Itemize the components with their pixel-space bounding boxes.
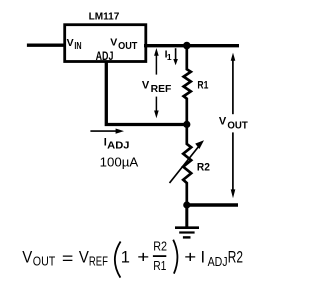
ground [175, 228, 199, 238]
label R1 [197, 80, 208, 92]
wire ADJ pin [106, 62, 187, 125]
label VOUT [219, 116, 248, 132]
wire bottom [187, 203, 238, 206]
value 100uA [100, 154, 139, 169]
voltage VREF dimension arrow [154, 48, 159, 118]
svg-text:REF: REF [151, 84, 172, 95]
svg-text:ADJ: ADJ [208, 255, 228, 269]
label R2 [197, 161, 210, 173]
voltage VOUT dimension arrow [231, 53, 236, 199]
pin label ADJ [96, 51, 114, 63]
svg-text:R2: R2 [153, 238, 167, 253]
svg-text:OUT: OUT [33, 254, 56, 268]
svg-text:OUT: OUT [118, 41, 137, 52]
resistor R2 variable [183, 124, 191, 205]
svg-text:ADJ: ADJ [107, 140, 129, 151]
current IADJ arrow [90, 129, 124, 134]
label IADJ [104, 137, 130, 152]
svg-text:100µA: 100µA [100, 154, 139, 169]
wire input [27, 44, 66, 47]
resistor R1 [184, 46, 191, 125]
arrow R2 wiper [170, 140, 205, 183]
svg-text:R2: R2 [197, 161, 210, 173]
ground stub [185, 205, 188, 227]
svg-text:ADJ: ADJ [96, 51, 114, 63]
svg-text:V: V [79, 249, 89, 267]
svg-text:1: 1 [121, 248, 130, 266]
svg-text:V: V [219, 116, 227, 128]
svg-text:1: 1 [167, 52, 172, 62]
svg-text:OUT: OUT [227, 121, 247, 132]
junction output node [183, 42, 191, 50]
svg-text:=: = [62, 250, 74, 268]
svg-text:R1: R1 [197, 80, 208, 92]
pin label VIN [67, 37, 82, 52]
svg-text:IN: IN [74, 41, 81, 52]
svg-text:+: + [137, 248, 149, 266]
pin label VOUT [110, 37, 137, 52]
svg-text:V: V [67, 37, 74, 49]
svg-text:REF: REF [89, 254, 108, 268]
svg-text:R1: R1 [153, 258, 166, 273]
svg-text:LM117: LM117 [89, 12, 120, 23]
svg-text:I: I [201, 249, 206, 267]
current I1 arrow [173, 48, 178, 65]
svg-text:V: V [142, 79, 150, 91]
svg-text:V: V [22, 249, 32, 267]
wire output [144, 44, 239, 47]
label I1 [165, 48, 172, 62]
formula [22, 238, 243, 277]
junction ground node [183, 201, 190, 208]
svg-text:V: V [110, 37, 117, 49]
junction ADJ node [183, 121, 190, 128]
svg-text:R2: R2 [228, 249, 243, 267]
regulator U1 LM117 body [65, 25, 146, 62]
svg-text:+: + [184, 249, 196, 267]
label VREF [142, 79, 171, 95]
label LM117 [89, 12, 120, 23]
